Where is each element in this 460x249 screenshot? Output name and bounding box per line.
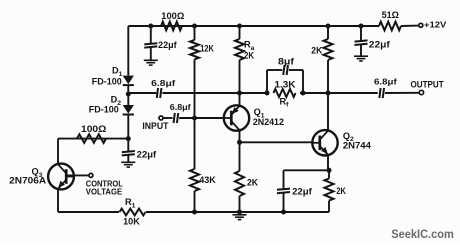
svg-text:100Ω: 100Ω [81, 124, 106, 134]
svg-text:8μf: 8μf [278, 57, 294, 67]
svg-text:6.8μf: 6.8μf [170, 102, 191, 112]
svg-text:OUTPUT: OUTPUT [411, 80, 445, 90]
svg-text:2N2412: 2N2412 [253, 116, 284, 127]
svg-text:2K: 2K [311, 46, 323, 56]
svg-text:FD-100: FD-100 [89, 105, 119, 115]
svg-text:INPUT: INPUT [142, 121, 168, 131]
svg-text:2K: 2K [244, 51, 255, 61]
svg-text:2K: 2K [247, 178, 259, 188]
svg-text:22μf: 22μf [369, 40, 390, 50]
svg-text:22μf: 22μf [292, 187, 312, 197]
svg-text:22μf: 22μf [137, 149, 157, 159]
svg-text:VOLTAGE: VOLTAGE [86, 186, 123, 196]
svg-text:10K: 10K [123, 217, 140, 227]
svg-text:2N744: 2N744 [343, 140, 372, 151]
svg-text:6.8μf: 6.8μf [374, 76, 397, 86]
svg-text:2K: 2K [336, 186, 346, 196]
svg-text:SeekIC.com: SeekIC.com [391, 227, 454, 241]
svg-text:100Ω: 100Ω [161, 11, 184, 21]
svg-text:51Ω: 51Ω [382, 10, 399, 20]
svg-text:12K: 12K [200, 43, 214, 53]
svg-text:1.3K: 1.3K [275, 80, 297, 90]
svg-text:FD-100: FD-100 [92, 76, 122, 86]
svg-text:2N706A: 2N706A [9, 176, 47, 186]
svg-text:22μf: 22μf [158, 40, 177, 50]
svg-text:43K: 43K [199, 175, 216, 185]
svg-text:6.8μf: 6.8μf [151, 78, 175, 88]
svg-text:+12V: +12V [424, 20, 447, 29]
